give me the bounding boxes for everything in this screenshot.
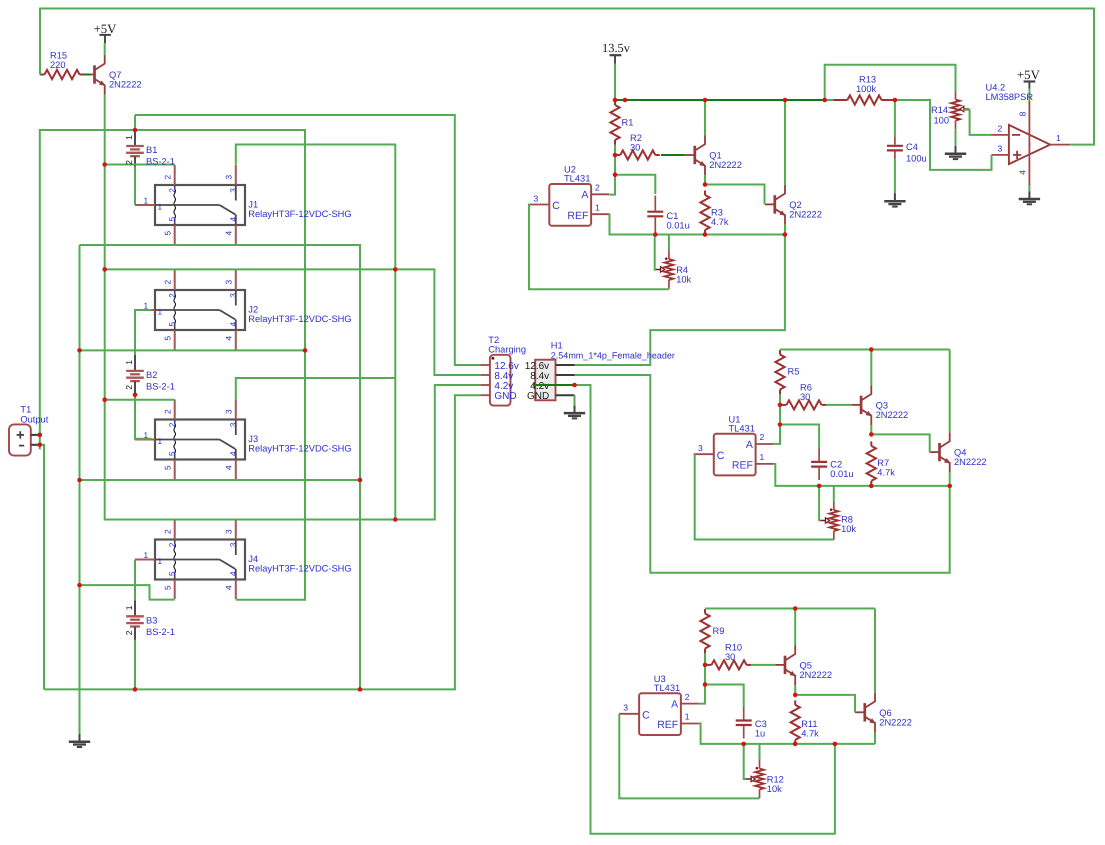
wire R2 to Q1 base xyxy=(661,154,685,156)
junction at 135,395 xyxy=(133,393,138,398)
wire B3 pin2 to ground rail xyxy=(134,640,136,689)
svg-text:R11: R11 xyxy=(801,719,817,729)
svg-text:TL431: TL431 xyxy=(729,423,755,433)
svg-text:30: 30 xyxy=(725,652,735,662)
svg-text:2: 2 xyxy=(760,432,765,442)
wire J4 pin5 jog to ground trunk xyxy=(80,585,175,600)
junction at 105,400 xyxy=(102,397,107,402)
wire 13.5v top rail xyxy=(615,99,825,101)
wire top feedback loop xyxy=(40,9,1094,145)
wire Q3 emitter node to Q4 base xyxy=(871,434,929,452)
wire R6 to Q3 base xyxy=(826,404,851,406)
transistor Q6 2N2222 xyxy=(855,693,875,733)
relay J3 RelayHT3F-12VDC-SHG xyxy=(135,400,245,480)
svg-text:GND: GND xyxy=(527,391,549,402)
wire R5 bottom chain to U1 pin A xyxy=(774,394,780,444)
wire H1 pin3 segment over header xyxy=(533,384,575,386)
junction at 744,744 xyxy=(741,742,746,747)
svg-text:Charging: Charging xyxy=(488,345,526,355)
svg-text:1: 1 xyxy=(144,430,149,440)
svg-text:1: 1 xyxy=(760,452,765,462)
wire R1 bottom node chain xyxy=(609,145,615,195)
svg-text:Q6: Q6 xyxy=(879,708,891,718)
capacitor C1 0.01u xyxy=(654,196,656,211)
svg-text:2: 2 xyxy=(167,293,177,298)
wire J3 pin3 up to pin3 bus xyxy=(236,378,395,400)
wire 12.6v rail from B1 to T2 pin1 xyxy=(135,115,480,365)
svg-text:1: 1 xyxy=(1056,133,1061,143)
junction at 835,744 xyxy=(833,742,838,747)
wire B2 pin2 down to J3 pin1 xyxy=(135,395,152,439)
svg-text:2: 2 xyxy=(167,542,177,547)
svg-text:R5: R5 xyxy=(788,367,800,377)
svg-text:T1: T1 xyxy=(20,405,31,415)
wire R15 to Q7 base xyxy=(84,74,85,76)
wire Q1 emitter node to Q2 base xyxy=(705,185,765,205)
svg-text:4: 4 xyxy=(228,217,238,222)
svg-text:J1: J1 xyxy=(248,200,258,210)
wire Q2 emitter to node xyxy=(784,225,786,235)
svg-text:1: 1 xyxy=(144,550,149,560)
connector T2 Charging xyxy=(480,355,510,406)
wire R13 right to op-amp pin3 xyxy=(895,100,992,170)
wire R10 to Q5 base xyxy=(751,664,775,666)
svg-text:RelayHT3F-12VDC-SHG: RelayHT3F-12VDC-SHG xyxy=(248,564,351,574)
svg-text:T2: T2 xyxy=(488,335,499,345)
junction at 780,424 xyxy=(778,422,783,427)
wire Q1 collector riser xyxy=(704,100,706,136)
junction at 574,385 xyxy=(572,383,577,388)
svg-text:2: 2 xyxy=(124,630,134,635)
svg-text:2N2222: 2N2222 xyxy=(876,410,909,420)
svg-text:3: 3 xyxy=(228,542,238,547)
wire Q1 emitter to node xyxy=(704,175,706,184)
connector H1 2.54mm_1*4p_Female_header xyxy=(535,360,574,401)
junction at 615,155 xyxy=(613,153,618,158)
svg-text:C3: C3 xyxy=(755,719,767,729)
svg-text:R13: R13 xyxy=(859,75,876,85)
svg-text:RelayHT3F-12VDC-SHG: RelayHT3F-12VDC-SHG xyxy=(248,314,351,324)
svg-text:1: 1 xyxy=(158,202,163,212)
wire R4 wiper drop xyxy=(654,235,657,270)
ground GND R14 xyxy=(945,129,966,159)
svg-text:5: 5 xyxy=(162,465,172,470)
wire R12 wiper drop xyxy=(744,744,746,779)
wire R8 bottom to U1 pin C xyxy=(695,454,834,539)
svg-text:3: 3 xyxy=(223,529,233,534)
wire U1 top rail xyxy=(780,349,950,351)
svg-text:C: C xyxy=(717,450,725,462)
junction at 785,234 xyxy=(783,232,788,237)
wire H1 pin3 to U3 output node (4.2v) xyxy=(575,385,835,834)
svg-text:30: 30 xyxy=(800,392,810,402)
junction at 80,350 xyxy=(77,348,82,353)
svg-text:R1: R1 xyxy=(622,118,634,128)
svg-text:J3: J3 xyxy=(248,434,258,444)
junction at 360,480 xyxy=(358,478,363,483)
svg-text:3: 3 xyxy=(223,409,233,414)
wire Q2 collector riser xyxy=(784,100,786,185)
junction at 871,434 xyxy=(869,432,874,437)
potentiometer R4 10k xyxy=(668,251,670,260)
wire J3 bottom rail xyxy=(80,479,361,481)
svg-text:Q5: Q5 xyxy=(800,660,812,670)
relay J4 RelayHT3F-12VDC-SHG xyxy=(135,520,245,600)
IC U2 TL431 xyxy=(549,184,591,226)
svg-text:4.7k: 4.7k xyxy=(711,217,729,227)
wire J1 bottom rail to grounds riser xyxy=(80,245,361,689)
svg-text:10k: 10k xyxy=(841,524,856,534)
svg-text:5: 5 xyxy=(162,231,172,236)
junction at 705,184 xyxy=(703,182,708,187)
svg-text:R9: R9 xyxy=(713,626,725,636)
potentiometer R12 10k xyxy=(759,760,761,769)
svg-text:LM358PSR: LM358PSR xyxy=(986,92,1034,102)
wire Q6 collector riser xyxy=(874,609,876,693)
svg-text:1: 1 xyxy=(144,195,149,205)
wire J2 bottom rail xyxy=(80,349,306,351)
svg-text:3: 3 xyxy=(534,193,539,203)
svg-text:B2: B2 xyxy=(146,370,157,380)
svg-text:+5V: +5V xyxy=(1017,68,1041,82)
relay J2 RelayHT3F-12VDC-SHG xyxy=(135,270,245,350)
ground GND U4 pin4 xyxy=(1019,186,1040,205)
battery B1 BS-2-1 xyxy=(126,130,144,167)
wire J2 pin1 to B2 xyxy=(135,310,152,355)
svg-text:GND: GND xyxy=(494,391,516,402)
svg-text:2: 2 xyxy=(685,692,690,702)
svg-text:4: 4 xyxy=(223,465,233,470)
svg-text:R14: R14 xyxy=(931,105,948,115)
battery B3 BS-2-1 xyxy=(126,600,144,640)
transistor Q3 2N2222 xyxy=(851,385,871,425)
svg-text:C: C xyxy=(552,200,560,212)
svg-text:2: 2 xyxy=(124,160,134,165)
ground GND bottom-left xyxy=(69,726,90,747)
junction at 871,486 xyxy=(869,484,874,489)
svg-text:R10: R10 xyxy=(725,643,742,653)
svg-text:5: 5 xyxy=(162,336,172,341)
svg-text:Q1: Q1 xyxy=(709,151,721,161)
IC U3 TL431 xyxy=(639,693,681,735)
wire Q5 emitter node to Q6 base xyxy=(795,695,855,712)
svg-text:2: 2 xyxy=(998,123,1003,133)
transistor Q1 2N2222 xyxy=(685,136,705,176)
svg-text:3: 3 xyxy=(998,143,1003,153)
svg-text:1: 1 xyxy=(595,202,600,212)
junction at 705,684 xyxy=(703,682,708,687)
svg-text:4: 4 xyxy=(223,585,233,590)
power flag +5V (Q7) xyxy=(99,35,111,43)
wire R8 top connection xyxy=(833,486,835,502)
resistor R7 4.7k xyxy=(870,441,872,446)
wire 13.5v flag drop xyxy=(614,64,616,101)
svg-text:BS-2-1: BS-2-1 xyxy=(146,157,175,167)
svg-text:3: 3 xyxy=(228,188,238,193)
junction at 135,130 xyxy=(133,128,138,133)
svg-text:3: 3 xyxy=(228,293,238,298)
junction at 305,350 xyxy=(303,348,308,353)
connector T1 Output xyxy=(9,424,40,455)
svg-text:10k: 10k xyxy=(676,274,691,284)
wire Q5 collector riser xyxy=(794,609,796,646)
wire U2 REF to bottom node rail xyxy=(609,214,785,234)
resistor R9 xyxy=(704,609,706,614)
svg-text:REF: REF xyxy=(567,210,588,222)
wire Q4 collector riser xyxy=(949,350,951,433)
junction at 950,486 xyxy=(947,484,952,489)
svg-text:2: 2 xyxy=(124,385,134,390)
relay J1 RelayHT3F-12VDC-SHG xyxy=(135,165,245,245)
op-amp U4.2 LM358PSR xyxy=(992,101,1071,186)
svg-text:5: 5 xyxy=(167,322,177,327)
svg-text:C1: C1 xyxy=(667,211,679,221)
svg-text:B1: B1 xyxy=(146,145,157,155)
svg-text:R2: R2 xyxy=(630,133,642,143)
svg-text:10k: 10k xyxy=(767,784,782,794)
transistor Q2 2N2222 xyxy=(765,185,785,225)
svg-text:2N2222: 2N2222 xyxy=(109,80,142,90)
svg-text:+5V: +5V xyxy=(94,22,118,36)
svg-text:2: 2 xyxy=(162,280,172,285)
resistor R3 4.7k xyxy=(704,191,706,196)
svg-text:1: 1 xyxy=(158,307,163,317)
svg-text:H1: H1 xyxy=(551,341,563,351)
wire J4 pin1 to B3 xyxy=(134,560,136,601)
junction at 80,480 xyxy=(77,478,82,483)
svg-text:4.7k: 4.7k xyxy=(801,728,819,738)
resistor R10 30 xyxy=(707,664,712,666)
wire Q7 collector to +5V xyxy=(104,43,106,55)
svg-text:5: 5 xyxy=(167,451,177,456)
svg-text:C2: C2 xyxy=(830,459,842,469)
svg-text:0.01u: 0.01u xyxy=(830,469,853,479)
svg-text:4: 4 xyxy=(228,322,238,327)
junction at 705,234 xyxy=(703,232,708,237)
junction at 615,100 xyxy=(613,98,618,103)
ground GND C4 xyxy=(884,159,905,206)
wire U3 top rail xyxy=(705,608,875,610)
wire Q3 collector riser xyxy=(870,350,872,386)
svg-text:2N2222: 2N2222 xyxy=(800,670,833,680)
svg-text:4: 4 xyxy=(1018,170,1028,175)
wire R8 wiper drop xyxy=(819,486,820,520)
svg-text:R8: R8 xyxy=(841,514,853,524)
svg-text:C4: C4 xyxy=(906,142,918,152)
wire B1 pin1 rail / J4 pin4 riser xyxy=(40,130,305,600)
svg-text:30: 30 xyxy=(630,142,640,152)
wire op-amp pin8 to +5V xyxy=(1028,89,1030,101)
svg-text:1: 1 xyxy=(144,300,149,310)
svg-text:2: 2 xyxy=(595,183,600,193)
junction at 819,486 xyxy=(817,484,822,489)
ground GND H1 xyxy=(564,395,585,418)
svg-text:R7: R7 xyxy=(877,458,889,468)
svg-text:R12: R12 xyxy=(767,774,784,784)
svg-text:4.7k: 4.7k xyxy=(877,468,895,478)
wire U1 REF rail xyxy=(774,464,950,486)
junction at 360,689 xyxy=(358,687,363,692)
svg-text:RelayHT3F-12VDC-SHG: RelayHT3F-12VDC-SHG xyxy=(248,209,351,219)
junction at 785,100 xyxy=(783,98,788,103)
svg-text:2N2222: 2N2222 xyxy=(709,160,742,170)
svg-text:3: 3 xyxy=(223,175,233,180)
svg-text:Q7: Q7 xyxy=(109,70,121,80)
svg-text:1: 1 xyxy=(158,556,163,566)
junction at 40,435 xyxy=(38,433,43,438)
transistor Q5 2N2222 xyxy=(775,645,795,685)
svg-text:TL431: TL431 xyxy=(654,683,680,693)
wire R4 top connection xyxy=(668,235,670,251)
wire Q3 emitter to node xyxy=(870,425,872,434)
junction at 705,665 xyxy=(703,663,708,668)
svg-text:A: A xyxy=(746,439,753,451)
wire B1 pin2 down to J1 pin1 xyxy=(134,167,136,205)
capacitor C2 0.01u xyxy=(818,449,820,461)
wire C3 branch xyxy=(705,685,744,708)
resistor R5 xyxy=(779,350,781,355)
svg-text:3: 3 xyxy=(228,422,238,427)
svg-text:REF: REF xyxy=(657,719,678,731)
wire bottom ground rail to T2 pin4 xyxy=(44,395,480,689)
svg-text:2: 2 xyxy=(162,409,172,414)
svg-text:J4: J4 xyxy=(248,554,258,564)
wire left ground trunk xyxy=(79,245,81,726)
junction at 625,100 xyxy=(623,98,628,103)
capacitor C3 1u xyxy=(743,707,745,719)
svg-text:1u: 1u xyxy=(755,729,765,739)
resistor R13 100k xyxy=(833,99,848,101)
svg-text:100: 100 xyxy=(934,115,950,125)
svg-text:1: 1 xyxy=(124,135,134,140)
resistor R15 220 xyxy=(40,74,45,76)
wire J1 coil rail xyxy=(105,164,175,166)
junction at 80,585 xyxy=(77,583,82,588)
battery B2 BS-2-1 xyxy=(126,355,144,395)
svg-text:2: 2 xyxy=(162,175,172,180)
junction at 655,234 xyxy=(653,232,658,237)
svg-text:A: A xyxy=(581,189,588,201)
wire C2 branch xyxy=(780,425,819,449)
wire R12 bottom to U3 pin C xyxy=(619,714,759,799)
svg-text:C: C xyxy=(642,709,650,721)
svg-text:3: 3 xyxy=(698,443,703,453)
junction at 40,445 xyxy=(38,443,43,448)
svg-text:TL431: TL431 xyxy=(564,174,590,184)
junction at 795,608 xyxy=(793,606,798,611)
svg-text:100u: 100u xyxy=(906,153,927,163)
svg-text:13.5v: 13.5v xyxy=(602,41,631,55)
wire R12 top connection xyxy=(759,744,761,760)
resistor R6 30 xyxy=(782,404,787,406)
svg-text:B3: B3 xyxy=(146,615,157,625)
svg-text:BS-2-1: BS-2-1 xyxy=(146,382,175,392)
svg-text:Q4: Q4 xyxy=(954,448,966,458)
junction at 395,520 xyxy=(393,517,398,522)
resistor R1 xyxy=(614,101,616,106)
svg-text:100k: 100k xyxy=(856,84,877,94)
junction at 135,689 xyxy=(133,687,138,692)
svg-text:4: 4 xyxy=(228,451,238,456)
svg-text:R6: R6 xyxy=(800,383,812,393)
wire J2 coil rail to T2 pin2 xyxy=(105,269,481,375)
IC U1 TL431 xyxy=(714,434,756,476)
svg-text:4: 4 xyxy=(223,231,233,236)
wire T1 minus jog down to ground rail xyxy=(41,445,45,690)
svg-text:Output: Output xyxy=(20,414,48,424)
wire H1 pin2 to Q4 emitter node xyxy=(575,375,950,573)
svg-text:1: 1 xyxy=(158,436,163,446)
junction at 105,164 xyxy=(102,162,107,167)
wire Q5 emitter to node xyxy=(794,685,796,695)
svg-text:220: 220 xyxy=(50,60,66,70)
transistor Q7 2N2222 xyxy=(85,55,105,95)
resistor R2 30 xyxy=(616,154,621,156)
svg-text:1: 1 xyxy=(685,712,690,722)
svg-text:4: 4 xyxy=(223,336,233,341)
wire Q4 emitter to node xyxy=(949,472,951,486)
power flag 13.5v xyxy=(610,55,622,63)
svg-text:Q2: Q2 xyxy=(789,200,801,210)
svg-text:1: 1 xyxy=(124,360,134,365)
junction at 615,175 xyxy=(613,172,618,177)
wire Q7 emitter trunk down to J4 coil rail and T2 pin3 xyxy=(105,95,481,520)
wire R14 wiper to op-amp pin2 xyxy=(964,110,992,135)
junction at 795,744 xyxy=(793,742,798,747)
junction at 825,100 xyxy=(822,98,827,103)
wire upper bypass loop to R14 xyxy=(825,65,956,100)
potentiometer R8 10k xyxy=(833,502,835,511)
transistor Q4 2N2222 xyxy=(930,433,950,473)
svg-text:0.01u: 0.01u xyxy=(667,221,690,231)
power flag +5V (U4) xyxy=(1024,82,1036,89)
svg-text:3: 3 xyxy=(623,703,628,713)
wire R9 bottom node xyxy=(699,653,705,704)
svg-text:A: A xyxy=(671,699,678,711)
junction at 105,269 xyxy=(102,267,107,272)
svg-text:3: 3 xyxy=(223,280,233,285)
wire J1 pin3 riser to relays pin3 bus xyxy=(236,145,395,520)
svg-text:2: 2 xyxy=(167,422,177,427)
junction at 780,405 xyxy=(778,403,783,408)
svg-text:2: 2 xyxy=(167,188,177,193)
wire R4 bottom to U2 pin C xyxy=(529,205,669,290)
svg-text:4: 4 xyxy=(228,571,238,576)
svg-text:2N2222: 2N2222 xyxy=(954,457,987,467)
svg-text:RelayHT3F-12VDC-SHG: RelayHT3F-12VDC-SHG xyxy=(248,444,351,454)
svg-text:2: 2 xyxy=(162,529,172,534)
svg-text:R3: R3 xyxy=(711,208,723,218)
wire R13 left connection xyxy=(825,99,834,101)
potentiometer R14 100 xyxy=(955,91,957,100)
svg-text:U4.2: U4.2 xyxy=(986,82,1006,92)
svg-text:BS-2-1: BS-2-1 xyxy=(146,627,175,637)
svg-text:2N2222: 2N2222 xyxy=(789,209,822,219)
wire C4 top xyxy=(894,100,896,137)
wire Q6 emitter to node xyxy=(874,733,876,744)
wire H1 pin1 to Q2 emitter node xyxy=(575,235,785,366)
wire J3 coil rail xyxy=(105,399,175,401)
svg-text:J2: J2 xyxy=(248,305,258,315)
junction at 705,100 xyxy=(703,98,708,103)
wire C1 branch xyxy=(615,175,655,194)
wire U3 REF rail xyxy=(699,724,875,744)
junction at 795,695 xyxy=(793,693,798,698)
svg-text:R4: R4 xyxy=(676,265,688,275)
capacitor C4 100u xyxy=(894,137,896,145)
svg-text:1: 1 xyxy=(124,605,134,610)
junction at 871,350 xyxy=(869,347,874,352)
